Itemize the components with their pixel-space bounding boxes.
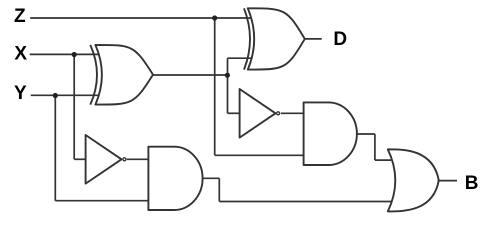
junction on XOR1 output node A [225, 73, 230, 78]
inverter U1 triangle [86, 135, 122, 184]
junction on X line [72, 52, 77, 57]
xor gate XOR2 body [248, 8, 305, 69]
wire Y branch vertical [54, 95, 56, 200]
wire Z input [30, 17, 251, 19]
svg-text:Z: Z [14, 6, 26, 27]
wire inverter U2 output to AND2 [281, 112, 304, 114]
wire X branch vertical [73, 54, 75, 159]
xor gate XOR1 body [95, 45, 153, 105]
svg-text:Y: Y [14, 83, 27, 104]
wire AND2 output to OR top input [375, 159, 391, 161]
wire AND1 output vertical [218, 178, 220, 201]
xor gate XOR1 input arc [90, 45, 97, 105]
wire X branch to inverter U1 input [74, 158, 86, 160]
and gate AND1 [148, 147, 202, 210]
wire X input [30, 53, 99, 55]
wire AND1 output horizontal [203, 177, 220, 179]
wire OR output to B [438, 180, 458, 182]
svg-text:X: X [14, 43, 27, 64]
wire Z branch to AND2 lower input [215, 154, 304, 156]
wire vertical at node A [227, 58, 229, 113]
svg-text:D: D [333, 29, 347, 50]
and gate AND2 [304, 102, 357, 165]
or gate OR1 [388, 149, 439, 211]
wire Y input [31, 94, 99, 96]
wire to XOR2 lower input [228, 57, 252, 59]
inverter U2 triangle [240, 89, 276, 138]
wire AND2 output vertical [374, 134, 376, 160]
wire inverter U1 output to AND1 [127, 158, 149, 160]
wire AND1 output to OR bottom input [219, 201, 391, 203]
wire AND2 output horizontal [357, 133, 375, 135]
xor gate XOR2 input arc [244, 8, 250, 69]
inverter U1 bubble [123, 158, 126, 161]
wire Z branch vertical [214, 18, 216, 155]
inverter U2 bubble [277, 112, 280, 115]
wire Y branch to AND1 lower input [55, 200, 148, 202]
wire to inverter U2 input [228, 112, 241, 114]
wire XOR1 output [153, 74, 228, 76]
junction on Z line [212, 15, 217, 20]
svg-text:B: B [465, 173, 479, 194]
junction on Y line [53, 93, 58, 98]
wire XOR2 output to D [305, 38, 322, 40]
